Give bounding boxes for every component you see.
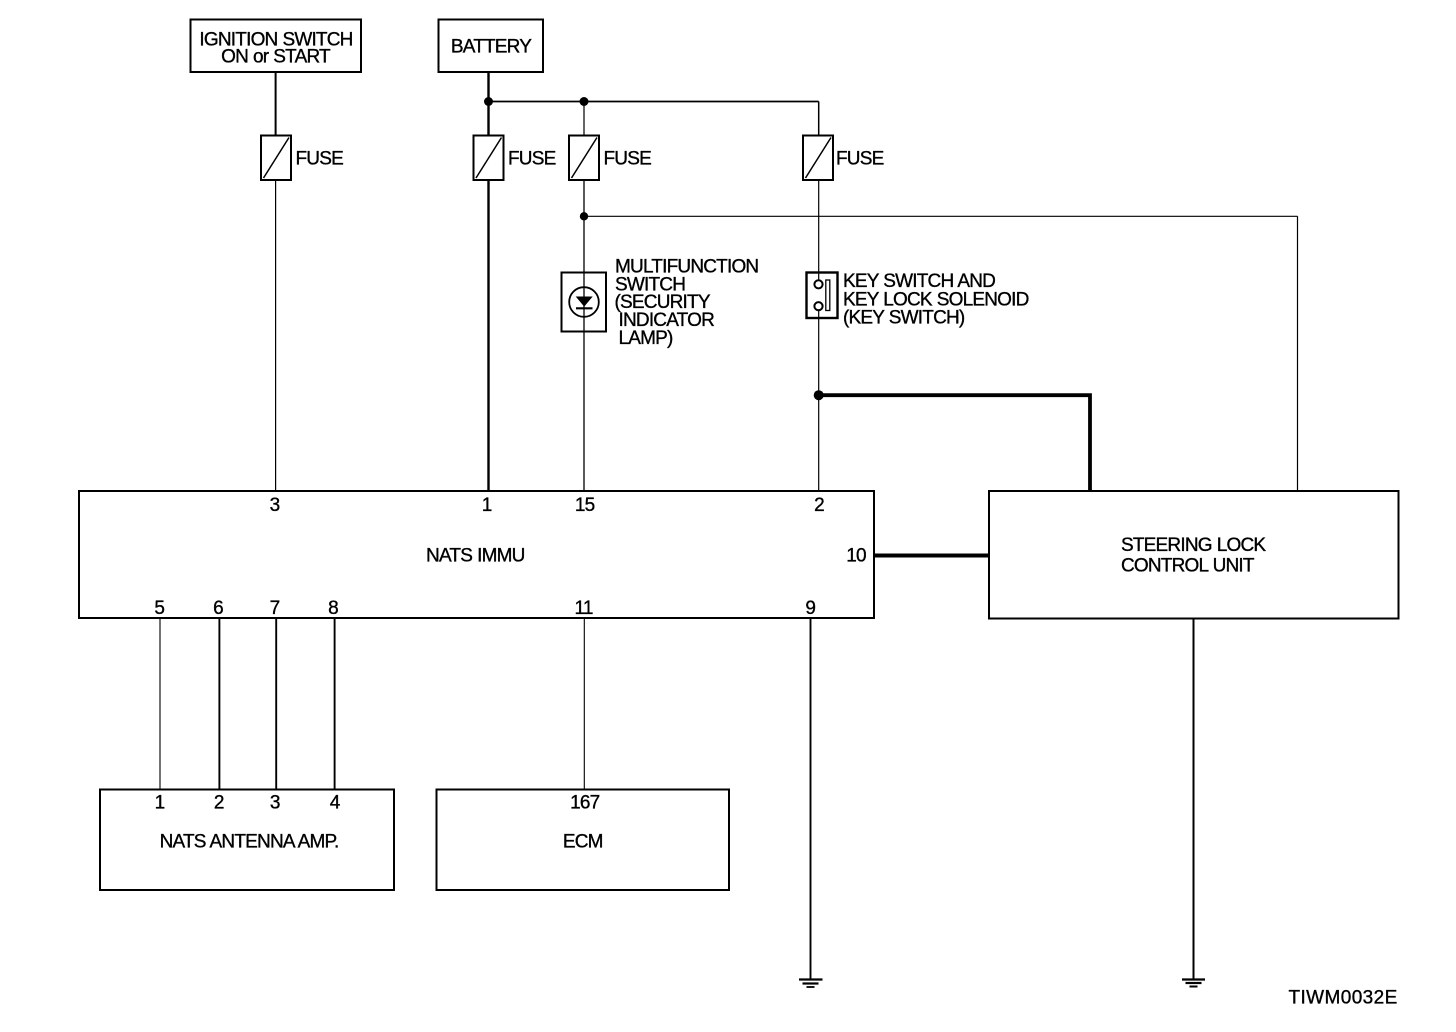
node junction battery bus <box>484 97 493 106</box>
ground G1 (NATS IMMU pin 9) <box>799 980 823 988</box>
box NATS ANTENNA AMP <box>100 790 394 891</box>
svg-text:7: 7 <box>270 598 280 619</box>
svg-text:4: 4 <box>330 793 341 814</box>
svg-text:ECM: ECM <box>563 831 603 852</box>
wire NATS IMMU pin 6 to antenna amp pin 2 <box>218 618 220 790</box>
multifunction switch U1 (security indicator lamp) <box>562 273 607 332</box>
wire top bus to fuse F4 <box>818 102 820 136</box>
svg-text:10: 10 <box>846 546 866 567</box>
svg-text:NATS IMMU: NATS IMMU <box>426 546 525 567</box>
svg-text:15: 15 <box>575 495 595 516</box>
wire top bus to fuse F3 <box>583 102 585 136</box>
wire NATS IMMU pin 10 to steering lock control unit <box>875 554 990 558</box>
wire right drop to steering lock control unit <box>1297 216 1299 491</box>
node junction mid bus <box>580 212 588 220</box>
wire fuse F2 to NATS IMMU pin 1 <box>487 180 489 491</box>
fuse F2 (battery) <box>474 136 556 181</box>
node junction fuse F3 tap <box>580 97 589 106</box>
svg-text:3: 3 <box>270 793 280 814</box>
svg-text:11: 11 <box>575 598 593 619</box>
label multifunction switch <box>615 256 759 349</box>
svg-text:NATS ANTENNA AMP.: NATS ANTENNA AMP. <box>160 831 339 852</box>
svg-text:6: 6 <box>213 598 223 619</box>
wire fuse F3 through lamp to NATS IMMU pin 15 <box>583 180 585 491</box>
svg-text:BATTERY: BATTERY <box>451 36 532 57</box>
svg-text:CONTROL UNIT: CONTROL UNIT <box>1121 556 1255 577</box>
wire NATS IMMU pin 7 to antenna amp pin 3 <box>275 618 277 790</box>
svg-text:3: 3 <box>270 495 280 516</box>
svg-text:1: 1 <box>155 793 165 814</box>
box BATTERY <box>439 20 544 73</box>
wire NATS IMMU pin 8 to antenna amp pin 4 <box>334 618 336 790</box>
wire thick bus key switch to steering lock control unit <box>819 395 1090 491</box>
svg-text:2: 2 <box>814 495 824 516</box>
svg-text:STEERING LOCK: STEERING LOCK <box>1121 535 1266 556</box>
svg-text:2: 2 <box>214 793 224 814</box>
fuse F1 (ignition) <box>261 136 343 181</box>
svg-text:1: 1 <box>482 495 492 516</box>
key switch S1 and key lock solenoid <box>807 273 838 319</box>
box IGNITION SWITCH <box>191 20 362 73</box>
wire NATS IMMU pin 5 to antenna amp pin 1 <box>159 618 161 790</box>
wire ignition switch to fuse <box>275 72 277 136</box>
ground G2 (steering lock control unit) <box>1182 980 1205 987</box>
svg-text:(KEY SWITCH): (KEY SWITCH) <box>843 308 965 329</box>
svg-text:ON or START: ON or START <box>221 47 331 68</box>
node junction key switch bus <box>814 390 824 400</box>
svg-text:5: 5 <box>154 598 164 619</box>
box STEERING LOCK CONTROL UNIT <box>989 491 1399 619</box>
svg-text:FUSE: FUSE <box>836 148 884 169</box>
svg-text:167: 167 <box>570 793 600 814</box>
wire fuse F1 to NATS IMMU pin 3 <box>275 180 277 491</box>
svg-text:FUSE: FUSE <box>508 148 556 169</box>
svg-text:9: 9 <box>805 598 815 619</box>
svg-text:FUSE: FUSE <box>604 148 652 169</box>
wire fuse F4 to key switch <box>818 180 820 281</box>
wire NATS IMMU pin 9 to ground <box>810 618 812 979</box>
wire mid bus to steering lock control unit <box>584 215 1298 217</box>
fuse F3 <box>569 136 651 181</box>
svg-text:LAMP): LAMP) <box>619 328 674 349</box>
wire battery to fuse F2 <box>487 72 489 136</box>
wire steering lock control unit to ground <box>1193 619 1195 980</box>
wire NATS IMMU pin 11 to ECM pin 167 <box>583 618 585 790</box>
label key switch <box>843 271 1029 329</box>
wire top bus battery to fuse F4 feed <box>489 101 819 103</box>
svg-text:TIWM0032E: TIWM0032E <box>1289 988 1398 1009</box>
wire key switch to NATS IMMU pin 2 <box>818 310 820 491</box>
box NATS IMMU <box>79 491 874 618</box>
fuse F4 <box>803 136 884 181</box>
svg-text:8: 8 <box>328 598 338 619</box>
box ECM <box>437 790 730 891</box>
svg-text:FUSE: FUSE <box>296 148 344 169</box>
